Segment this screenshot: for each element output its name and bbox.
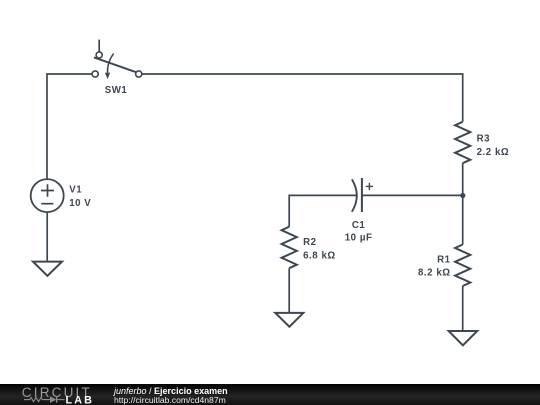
capacitor C1 straight plate [361, 178, 363, 212]
ground under R2 [275, 313, 303, 327]
resistor R1 zigzag [455, 245, 470, 287]
wire node to C1 right plate [362, 194, 463, 196]
wire R1 bottom to ground [462, 286, 464, 331]
svg-text:R2: R2 [303, 237, 316, 248]
resistor R3 zigzag [455, 122, 470, 163]
wire node to R1 [462, 195, 464, 244]
svg-text:C1: C1 [352, 220, 366, 231]
wire R3 bottom to node [462, 163, 464, 195]
node junction dot [460, 193, 465, 198]
CircuitLab logo [0, 384, 100, 405]
switch SW1 lever [94, 57, 136, 72]
wire C1 left plate to corner and down to R2 [289, 195, 356, 226]
wire left: switch to top-left corner and down to V1 [47, 74, 92, 178]
resistor R2 zigzag [282, 227, 297, 269]
switch SW1 actuation arc [107, 54, 113, 74]
C1 plus sign [366, 183, 373, 190]
voltage source V1 circle [31, 179, 64, 212]
ground under R1 [449, 331, 478, 345]
V1 plus sign [41, 184, 54, 196]
svg-text:R3: R3 [477, 134, 491, 145]
svg-text:6.8 kΩ: 6.8 kΩ [303, 251, 336, 262]
capacitor C1 curved plate [352, 179, 357, 211]
switch SW1 right terminal circle [136, 71, 142, 77]
svg-text:8.2 kΩ: 8.2 kΩ [418, 268, 451, 279]
V1 minus sign [41, 203, 53, 205]
footer bar [0, 384, 540, 405]
wire R2 bottom to ground [288, 268, 290, 313]
svg-text:V1: V1 [69, 185, 82, 196]
ground under V1 [33, 262, 62, 276]
switch SW1 throw terminal circle [96, 52, 102, 58]
switch SW1 left terminal circle [92, 71, 98, 77]
svg-text:10 µF: 10 µF [345, 233, 373, 244]
svg-text:R1: R1 [437, 254, 451, 265]
svg-text:LAB: LAB [66, 395, 95, 405]
wire right: switch to top-right corner down to R3 [142, 74, 463, 122]
wire V1 bottom to ground [46, 213, 48, 262]
svg-text:SW1: SW1 [105, 85, 128, 96]
svg-text:10 V: 10 V [69, 198, 91, 209]
svg-text:2.2 kΩ: 2.2 kΩ [477, 147, 510, 158]
footer text [114, 387, 228, 404]
wire top stub above SW1 [98, 40, 100, 52]
switch SW1 arrowhead [105, 73, 110, 79]
